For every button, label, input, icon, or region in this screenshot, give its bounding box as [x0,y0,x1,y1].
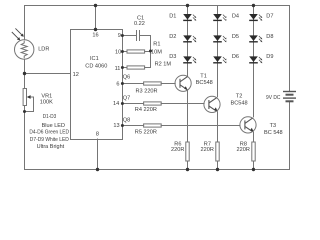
svg-text:11: 11 [115,66,121,72]
svg-text:10: 10 [115,49,121,55]
svg-text:D6: D6 [232,54,239,60]
svg-text:D7: D7 [266,14,273,20]
svg-text:T3: T3 [270,123,277,129]
svg-text:9V DC: 9V DC [266,95,280,101]
svg-text:R5 220R: R5 220R [135,129,157,135]
svg-text:6: 6 [116,82,119,88]
svg-text:D2: D2 [169,34,176,40]
svg-text:BC 548: BC 548 [264,130,283,136]
svg-text:VR1: VR1 [41,93,52,99]
svg-text:220R: 220R [237,147,250,153]
svg-text:D4: D4 [232,14,239,20]
svg-text:R2 1M: R2 1M [155,61,172,67]
svg-text:Q8: Q8 [123,117,130,123]
svg-text:220R: 220R [171,147,184,153]
svg-text:10M: 10M [151,50,162,56]
svg-text:100K: 100K [40,100,53,106]
svg-text:R3 220R: R3 220R [136,88,158,94]
svg-text:D8: D8 [266,34,273,40]
svg-text:CD 4060: CD 4060 [85,63,107,69]
svg-text:Ultra Bright: Ultra Bright [37,144,65,150]
svg-text:13: 13 [113,123,119,129]
svg-text:IC1: IC1 [90,56,99,62]
svg-text:BC548: BC548 [196,80,213,86]
svg-text:9: 9 [118,33,121,39]
svg-text:D9: D9 [266,54,273,60]
svg-text:BC548: BC548 [231,100,248,106]
svg-text:220R: 220R [201,147,214,153]
svg-text:D3: D3 [169,54,176,60]
svg-text:16: 16 [92,33,98,39]
svg-text:8: 8 [96,132,99,138]
svg-text:D4-D6 Green LED: D4-D6 Green LED [29,130,69,136]
svg-text:Blue LED: Blue LED [42,123,65,129]
svg-text:14: 14 [113,101,119,107]
svg-text:T1: T1 [200,74,207,80]
svg-text:LDR: LDR [38,47,49,53]
svg-text:12: 12 [73,72,79,78]
svg-text:R1: R1 [153,41,160,47]
svg-text:0.22: 0.22 [134,21,145,27]
svg-text:D7-D9 White LED: D7-D9 White LED [30,137,69,143]
svg-text:D1-D3: D1-D3 [43,114,56,120]
svg-text:R4 220R: R4 220R [135,107,157,113]
svg-text:Q6: Q6 [123,75,130,81]
svg-text:T2: T2 [236,94,243,100]
svg-text:D5: D5 [232,34,239,40]
svg-text:D1: D1 [169,14,176,20]
svg-text:Q7: Q7 [123,95,130,101]
